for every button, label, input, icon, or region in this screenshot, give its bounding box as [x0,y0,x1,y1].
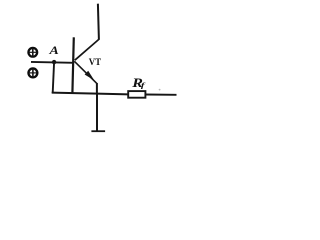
wire: bottom rail (left part, to emitter junction) [52,93,97,94]
transistor VT collector diagonal [75,39,99,60]
resistor Rf body [128,91,145,98]
wire: collector lead up [98,4,99,40]
transistor VT emitter diagonal [74,61,96,83]
transistor VT base bar (tall vertical, continues down to rail) [72,37,73,93]
terminal P1 (top circled-plus) [28,48,37,57]
svg-text:A: A [48,44,59,57]
ground stem [96,94,98,131]
svg-text:VT: VT [89,57,102,67]
emitter arrowhead [85,71,95,81]
wire: base lead from input to transistor [31,61,74,64]
wire: emitter drop to rail [96,83,98,94]
terminal P2 (bottom circled-plus) [28,68,37,77]
svg-text:f: f [141,82,146,90]
node A junction dot [52,60,56,64]
wire: bottom rail (emitter junction to resistor) [97,93,128,96]
wire: bottom rail (resistor to right end) [146,94,177,96]
speck on page [159,89,161,91]
wire: left vertical from node A down to bottom rail [53,62,54,93]
ground bar [91,130,105,132]
